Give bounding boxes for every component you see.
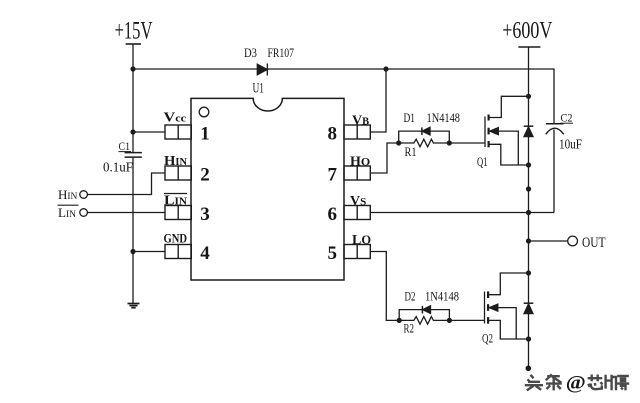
svg-text:OUT: OUT [582,235,606,251]
wire VS pin to rail and C2 [370,212,554,214]
watermark 头条@芯片哥 [525,374,629,390]
node R1 left junction [396,140,401,145]
node junction Q1 drain [526,94,531,99]
svg-text:GND: GND [164,231,188,246]
svg-text:HO: HO [350,155,370,170]
node junction GND tap [130,249,135,254]
label D3 FR107 [244,45,294,60]
label pin number 6 [328,204,338,225]
node R1 right junction [447,140,452,145]
node R2 right junction [447,318,452,323]
svg-text:Q2: Q2 [482,332,493,346]
svg-text:LO: LO [352,233,371,248]
capacitor C1 [125,153,142,158]
label C1 [119,139,131,153]
label 0.1uF [103,160,133,175]
svg-text:+600V: +600V [502,17,552,44]
pin 4 box [165,245,191,259]
label D1 1N4148 [404,110,461,125]
wire VB pin to bootstrap [370,69,386,132]
label 10uF [559,137,582,152]
label R1 [405,144,417,159]
svg-text:2: 2 [200,165,210,186]
svg-text:HIN: HIN [164,154,188,169]
label LIN pin [164,194,188,209]
label pin number 3 [200,204,210,225]
resistor R2 [399,317,449,325]
ground [128,304,140,308]
svg-text:3: 3 [200,204,210,225]
node HIN terminal [80,191,88,199]
pin 5 box [344,245,370,259]
label GND [164,231,188,246]
label pin number 5 [328,243,338,264]
svg-text:@: @ [566,373,586,393]
svg-text:D1: D1 [404,110,416,125]
svg-text:D2: D2 [405,289,416,304]
node LIN terminal [80,209,88,217]
node junction Q2 source [526,336,531,341]
label VS [350,194,366,209]
label U1 [253,80,265,96]
diode D1 [422,127,430,135]
svg-text:8: 8 [328,124,338,145]
diode Q1 body diode [524,126,534,136]
label LIN pin overline [164,193,187,195]
node rail end dot [526,366,532,372]
node junction VS rail [526,210,531,215]
wire HIN input [87,173,165,195]
node +15V label [115,17,153,44]
resistor R1 [399,139,450,147]
wire LO pin to R2 [370,252,399,321]
wire left rail upper [132,69,134,153]
label pin number 4 [200,243,210,264]
label Vcc [164,111,187,126]
watermark @ [566,373,586,393]
power +600V bar [518,46,540,48]
label pin number 1 [200,124,210,145]
svg-text:R2: R2 [404,321,415,336]
label VB [352,114,369,129]
node junction +15V rail [130,66,135,71]
diode Q2 body diode [524,303,534,313]
svg-text:VS: VS [350,194,366,209]
pin 8 box [344,125,370,139]
label HO [350,155,370,170]
svg-text:5: 5 [328,243,338,264]
wire +600V rail [528,47,530,368]
label pin number 2 [200,165,210,186]
pin 6 box [344,206,370,220]
svg-text:Q1: Q1 [477,155,488,169]
diode D3 [257,63,267,75]
svg-text:HIN: HIN [58,187,78,202]
node pin-1 indicator circle [199,107,209,117]
wire left rail lower [132,157,134,303]
pin 2 box [165,166,191,180]
pin 3 box [165,206,191,220]
svg-text:10uF: 10uF [559,137,582,152]
svg-text:VB: VB [352,114,369,129]
svg-text:Vcc: Vcc [164,111,187,126]
node +600V label [502,17,552,44]
label pin number 8 [328,124,338,145]
wire top bootstrap rail [133,69,554,124]
node junction Q2 drain [526,270,531,275]
label C2 [561,111,573,125]
svg-text:1N4148: 1N4148 [427,110,461,125]
transistor Q2 [485,273,529,339]
node OUT terminal [568,236,578,246]
svg-text:1: 1 [200,124,210,145]
label R2 [404,321,415,336]
svg-text:7: 7 [328,165,338,186]
node junction Q1 source [526,162,531,167]
svg-text:0.1uF: 0.1uF [103,160,133,175]
label Q2 [482,332,493,346]
power +15V bar [126,43,141,45]
label HIN terminal [58,187,78,202]
capacitor C2 [546,124,564,213]
svg-text:LIN: LIN [164,194,188,209]
svg-text:R1: R1 [405,144,417,159]
svg-text:LIN: LIN [58,205,76,220]
wire D2 branch [399,310,449,321]
node junction OUT tap [526,238,531,243]
label D2 1N4148 [405,289,460,304]
diode D2 [422,306,430,314]
label C1 underline [119,151,132,153]
wire LIN input [87,212,165,214]
label OUT [582,235,606,251]
wire D1 branch [399,131,450,143]
wire OUT [529,240,568,242]
node junction Vcc tap [130,129,135,134]
svg-text:C1: C1 [119,139,131,153]
wire GND pin wire [133,251,165,253]
node junction VB tap [383,66,388,71]
svg-text:D3: D3 [244,45,257,60]
label LIN terminal [58,205,76,220]
pin 7 box [344,166,370,180]
wire Vcc pin wire [133,131,165,133]
op-amp U1 IC body [191,98,344,280]
svg-text:C2: C2 [561,111,573,125]
pin 1 box [165,125,191,139]
svg-text:FR107: FR107 [268,45,295,60]
label LIN terminal overline [58,204,79,206]
label Q1 [477,155,488,169]
wire HO pin to R1 [370,143,398,173]
wire +15V drop [132,44,134,69]
node junction rail mid dot [526,186,531,191]
node R2 left junction [397,318,402,323]
svg-text:6: 6 [328,204,338,225]
wire R2 to Q2 gate [449,319,484,321]
svg-text:1N4148: 1N4148 [425,289,459,304]
label LO [352,233,371,248]
transistor Q1 [485,96,529,165]
svg-text:U1: U1 [253,80,265,96]
label HIN pin [164,154,188,169]
label C2 underline [560,122,573,124]
svg-text:+15V: +15V [115,17,153,44]
wire R1 to Q1 gate [449,142,485,144]
label pin number 7 [328,165,338,186]
svg-text:4: 4 [200,243,210,264]
